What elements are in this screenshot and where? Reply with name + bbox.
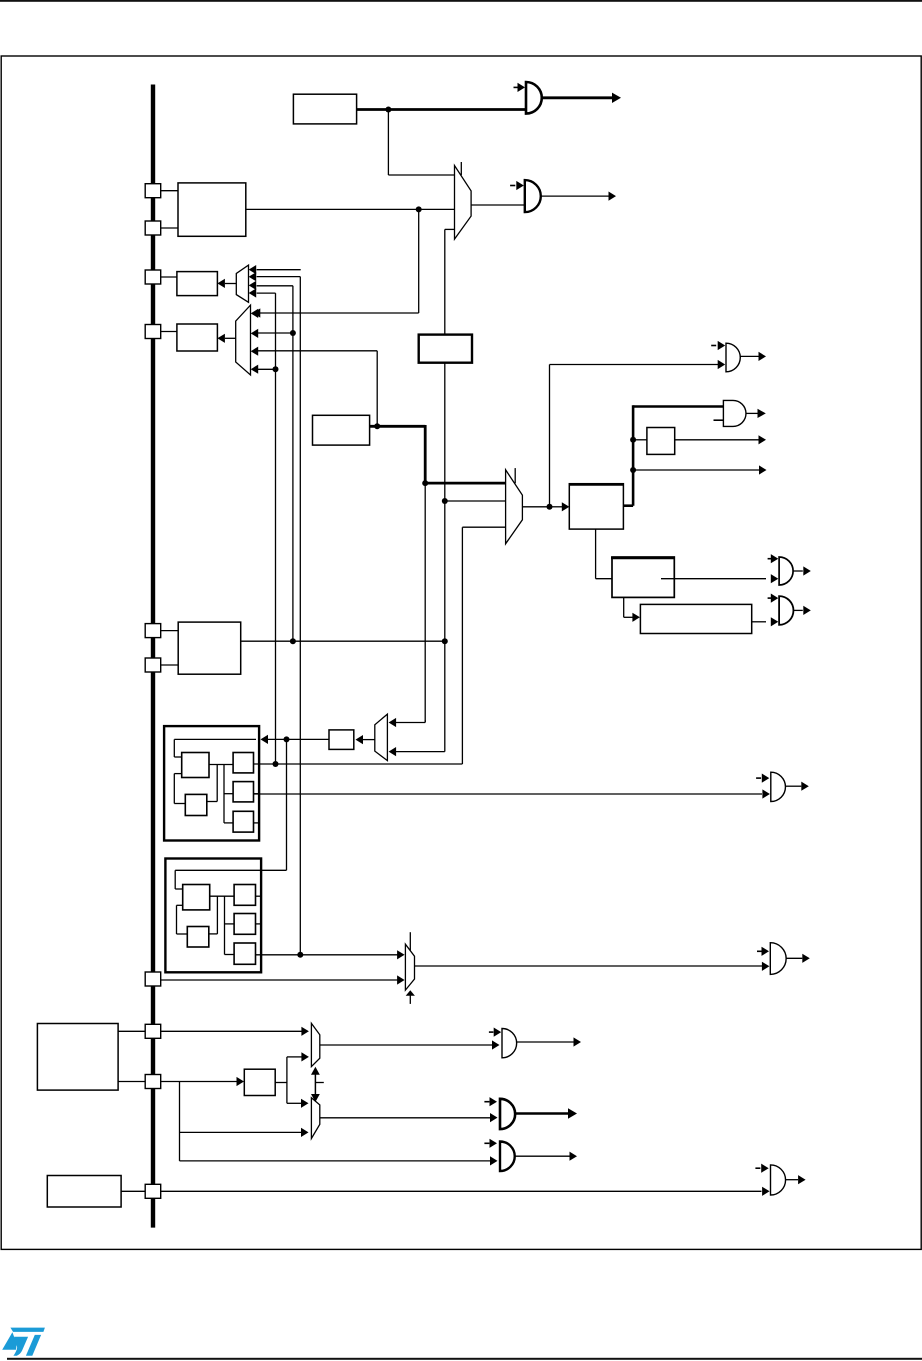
pin P10 <box>145 1184 161 1198</box>
B1 sub-box S1 <box>182 753 209 778</box>
junction dot net X292 at M3 input 2 <box>290 330 296 336</box>
register box R4 <box>177 324 218 351</box>
and gate G4 <box>723 400 746 426</box>
prescaler box R11 <box>329 730 354 750</box>
wire into counter R6 <box>550 506 563 508</box>
wire M4 output up to gate G3 <box>550 365 719 507</box>
mux M8 <box>311 1023 319 1066</box>
arrowhead mux M2 input 4 <box>249 288 257 297</box>
arrowhead into G11 input 2 <box>762 1187 770 1196</box>
B2 sub-box T3 <box>234 885 255 906</box>
junction dot R10 output at net X292 <box>290 638 296 644</box>
compare box R8 <box>611 557 674 597</box>
wire P10 to gate G11 <box>160 1190 761 1192</box>
junction dot B1 input line <box>284 736 290 742</box>
arrowhead mux M3 input 3 <box>251 347 259 356</box>
small box R13 <box>244 1069 275 1095</box>
event gate G9 <box>502 1029 517 1058</box>
mux M9 <box>311 1098 319 1139</box>
register box R1 <box>293 94 356 124</box>
wire junction to mux M1 top input <box>388 110 454 176</box>
wire B1 input line <box>174 738 256 740</box>
arrowhead into G9 input 2 <box>492 1040 500 1049</box>
B1 wire to S5 <box>224 822 233 824</box>
arrowhead mux M3 input 2 <box>251 329 259 338</box>
pin P5 <box>145 624 161 638</box>
arrowhead into R3 <box>217 279 225 288</box>
wire M4 output <box>522 506 549 508</box>
B1 wire S1 to S2 <box>174 774 185 804</box>
event gate G6 <box>779 596 793 625</box>
arrowhead into G5 <box>771 574 779 583</box>
page header rule <box>0 0 922 2</box>
arrowhead into B1 <box>261 735 269 744</box>
pin P6 <box>145 658 161 672</box>
event gate G8 <box>770 943 786 975</box>
pin P1 <box>145 184 161 198</box>
wire R13 net to M8 input 2 <box>287 1056 302 1058</box>
wire R13 net vertical <box>286 1057 288 1103</box>
arrowhead G2 output <box>609 192 617 201</box>
arrowhead mux M8 input 1 <box>301 1027 309 1036</box>
wire G5 output <box>793 570 803 572</box>
arrowhead G10 output <box>568 1108 577 1118</box>
wire P5 to R10 <box>160 630 178 632</box>
event gate G11 <box>771 1165 786 1195</box>
B1 wire right column vertical <box>223 765 225 823</box>
gate G1 enable arrow <box>514 83 526 92</box>
register box R14 <box>47 1176 121 1208</box>
capture block B2 outer box <box>165 859 261 973</box>
B1 wire S2 link <box>207 765 217 802</box>
B2 sub-box T1 <box>183 885 210 910</box>
pin P3 <box>145 270 161 284</box>
junction dot thick net lower tap <box>630 467 636 473</box>
mux M2 <box>236 265 248 302</box>
wire R10 output <box>241 640 445 642</box>
event gate G7 <box>771 772 786 801</box>
mux select link tick <box>315 1082 323 1084</box>
wire P7 to mux M7 <box>160 979 398 981</box>
wire R9 output to G6 <box>752 621 766 623</box>
wire R12 to P9 <box>118 1081 146 1083</box>
pin P4 <box>145 325 161 339</box>
wire G2 output <box>541 195 609 197</box>
event gate G10 <box>500 1099 515 1129</box>
junction dot R5 output to M3 net <box>374 423 380 429</box>
wire M9 output to G10 <box>320 1117 490 1119</box>
mux M7 select tick <box>409 932 411 950</box>
gate G5 enable arrow <box>768 554 779 563</box>
wire lower tap output <box>633 469 759 471</box>
arrowhead into R6 <box>562 502 570 511</box>
arrowhead G7 output <box>801 782 809 791</box>
B2 wire T2 link <box>209 896 218 934</box>
B2 sub-box T4 <box>234 914 255 935</box>
arrowhead mux M9 input 1 <box>301 1099 309 1108</box>
wire M2 input 3 from net X292 <box>257 286 293 641</box>
wire mux M2 output <box>225 283 236 285</box>
mux select link up arrow <box>311 1067 320 1096</box>
mux M1 <box>455 166 472 240</box>
wire M3 input 2 from net X292 <box>258 332 293 334</box>
arrowhead into G6 <box>771 617 779 626</box>
B1 wire entry to S1 <box>174 739 181 757</box>
gate G11b enable arrow <box>484 1139 497 1148</box>
arrowhead mux M8 input 2 <box>301 1052 309 1061</box>
B2 wire to T4 <box>225 923 235 925</box>
wire R2 output to mux M1 <box>246 208 455 210</box>
arrowhead mux M3 input 1 <box>251 309 259 318</box>
arrowhead mux M6 input 1 <box>389 718 397 727</box>
arrowhead G11 output <box>798 1175 806 1184</box>
arrowhead into G10 input 2 <box>490 1113 498 1122</box>
wire B1 output to capture mux net <box>254 763 463 765</box>
wire M4 input 2 <box>445 500 506 502</box>
wire M1 output to G2 <box>471 204 525 206</box>
arrowhead mux M2 input 3 <box>249 281 257 290</box>
junction dot on R1 output <box>385 107 391 113</box>
arrowhead into mux M3 input 1 <box>253 308 260 317</box>
pin P8 <box>145 1024 161 1038</box>
wire R6 bottom to R8 <box>596 529 612 579</box>
wire R14 to P10 <box>121 1190 146 1192</box>
pin P7 <box>145 972 161 986</box>
compare box R9 <box>640 604 751 633</box>
wire R11 to B1 <box>267 738 329 740</box>
wire R13 net to M9 input 1 <box>287 1102 302 1104</box>
wire R13 output <box>275 1082 287 1084</box>
wire R1 output (thick) <box>357 108 526 111</box>
B1 sub-box S3 <box>233 753 253 773</box>
wire net X179 branch down <box>179 1082 181 1161</box>
arrowhead G11b output <box>570 1152 578 1161</box>
B1 wire S4 stub <box>254 793 260 795</box>
wire net X179 to M9 input 2 <box>180 1131 302 1133</box>
gate G8 enable arrow <box>757 947 769 956</box>
junction dot thick net to R7 <box>630 437 636 443</box>
event gate G2 <box>525 180 541 212</box>
wire M2 input 4 from net X275 <box>257 293 276 764</box>
junction dot net X444 at M4 input 2 <box>442 498 448 504</box>
gate G2 enable arrow <box>510 181 524 190</box>
wire P3 to R3 <box>160 276 177 278</box>
wire G4 output <box>746 412 758 414</box>
wire M6 output to R11 <box>361 739 375 741</box>
mux M4 select tick <box>514 468 516 483</box>
register box R3 <box>177 272 218 296</box>
wire G10 output (thick) <box>515 1112 569 1115</box>
mux M7 bottom select arrow <box>406 990 415 1004</box>
wire G3 output <box>740 355 758 357</box>
mux M1 select tick <box>460 162 462 175</box>
capture block B1 outer box <box>164 726 259 840</box>
B1 sub-box S5 <box>233 811 253 832</box>
event gate G5 <box>779 557 793 585</box>
wire M8 output to G9 <box>320 1044 492 1046</box>
junction dot net X275 at M3 input 4 <box>273 366 279 372</box>
wire B1 output to G7 line <box>254 793 763 795</box>
arrowhead into R4 <box>217 334 225 343</box>
B2 wire T1 to T2 <box>177 905 188 934</box>
wire P4 to R4 <box>160 331 177 333</box>
register box R10 <box>178 622 241 674</box>
wire M7 output to G8 <box>415 965 763 967</box>
gate G10 enable arrow <box>484 1097 497 1106</box>
junction dot R10 output at net X444 <box>442 638 448 644</box>
B2 sub-box T2 <box>187 927 209 948</box>
junction dot on R2 output <box>416 206 422 212</box>
arrowhead G3 output <box>759 352 767 361</box>
register box R12 <box>37 1024 118 1091</box>
arrowhead G5 output <box>803 566 811 575</box>
arrowhead G1 output <box>612 93 621 103</box>
wire counter thick net to G4 <box>623 405 723 506</box>
wire P2 to R2 <box>161 227 178 229</box>
wire R8 output to G5 <box>661 578 766 580</box>
wire M2 input 2 from net X300 <box>257 277 301 955</box>
event gate G1 <box>526 82 542 114</box>
gate G3 enable arrow <box>711 341 725 350</box>
gate G4 inverted-input dash <box>714 419 724 421</box>
counter box R6 <box>569 484 623 529</box>
wire G6 output <box>793 609 802 611</box>
event gate G11b <box>500 1142 515 1172</box>
arrowhead mux M2 input 2 <box>249 272 257 281</box>
junction dot net X300 end <box>297 952 303 958</box>
arrowhead into R9 <box>632 613 640 622</box>
arrowhead into R11 <box>356 735 364 744</box>
register box R5 <box>313 415 370 445</box>
wire mux M1 bottom input stub <box>445 229 455 334</box>
arrowhead G8 output <box>802 954 810 963</box>
mux M7 <box>405 944 414 990</box>
wire G11b output <box>515 1155 570 1157</box>
B1 wire to S4 <box>224 793 233 795</box>
internal bus spine <box>151 85 155 1228</box>
arrowhead mux M2 input 1 <box>249 265 257 274</box>
arrowhead mux M6 input 2 <box>389 747 397 756</box>
wire R7 output <box>675 439 759 441</box>
B2 wire right column vertical <box>224 896 226 954</box>
wire net X286 down to B2 <box>261 739 286 870</box>
pin P9 <box>145 1075 161 1089</box>
B2 sub-box T5 <box>234 943 255 964</box>
B1 sub-box S2 <box>185 794 207 815</box>
B2 wire T3 stub <box>256 895 262 897</box>
arrowhead G6 output <box>803 606 811 615</box>
arrowhead into G7 input 2 <box>762 789 770 798</box>
wire G9 output <box>517 1041 574 1043</box>
wire G11 output <box>786 1179 798 1181</box>
arrowhead mux M9 input 2 <box>301 1128 309 1137</box>
wire net X425 down from corner <box>424 483 426 722</box>
mux M4 <box>506 470 523 544</box>
mux select link down arrow <box>311 1094 320 1102</box>
mux M3 <box>236 305 251 375</box>
register box R2 <box>178 183 246 236</box>
arrowhead mux M7 input 1 <box>397 950 405 959</box>
arrowhead into R13 <box>237 1077 245 1086</box>
gate G6 enable arrow <box>768 594 779 603</box>
wire R5 output thick path to mux M4 <box>370 425 506 483</box>
B2 wire to T5 <box>225 954 235 956</box>
wire M2 input 1 (open end) <box>257 269 301 271</box>
gate G9 enable arrow <box>489 1028 501 1037</box>
wire net X179 to gate G11b <box>180 1160 491 1162</box>
event gate G3 <box>726 343 740 372</box>
B2 wire T4 stub <box>256 923 262 925</box>
wire R8 bottom to R9 <box>624 597 633 617</box>
B1 wire S5 stub <box>254 822 260 824</box>
arrowhead mux M7 input 2 <box>397 975 405 984</box>
gate G7 enable arrow <box>756 774 769 783</box>
wire P9 to R13 <box>160 1081 238 1083</box>
wire M4 input 3 from capture net <box>462 527 505 764</box>
gate G11 enable arrow <box>755 1164 768 1173</box>
ST logo <box>2 1328 45 1356</box>
junction dot net X275 end <box>273 761 279 767</box>
wire M6 input 1 from net X425 <box>396 720 425 723</box>
wire G8 output <box>786 957 802 959</box>
junction dot M4 output <box>547 504 553 510</box>
wire R12 to P8 <box>118 1030 146 1032</box>
mux M6 <box>375 714 388 761</box>
arrowhead G4 output <box>758 409 766 418</box>
wire B2 output T5 to mux M7 <box>256 954 399 956</box>
arrowhead lower tap output <box>759 465 767 474</box>
arrowhead G9 output <box>574 1037 582 1046</box>
junction dot thick path corner <box>422 480 428 486</box>
wire junction down to mux M3 input 1 <box>258 209 419 313</box>
B1 wire S1 out to right column <box>209 764 233 766</box>
wire M6 input 2 from net X444 <box>396 751 445 753</box>
wire net X444 from R5b down <box>444 363 446 752</box>
wire P8 to mux M8 <box>160 1030 302 1032</box>
prescaler box R5b <box>419 335 472 363</box>
page footer rule <box>7 1358 922 1360</box>
small box R7 <box>647 428 675 455</box>
arrowhead R7 output <box>759 435 767 444</box>
B1 sub-box S4 <box>233 782 253 802</box>
wire P1 to R2 <box>160 190 178 192</box>
arrowhead mux M3 input 4 <box>251 365 259 374</box>
wire M3 input 4 from net X275 <box>258 368 276 370</box>
pin P2 <box>145 221 161 235</box>
B2 wire entry to T1 <box>175 870 261 889</box>
wire M3 input 3 from prescaler net <box>258 351 378 427</box>
arrowhead into G11b input 2 <box>490 1156 498 1165</box>
wire into R7 <box>633 439 647 441</box>
arrowhead into G3 input 2 <box>718 360 726 369</box>
wire G1 output (thick) <box>542 96 612 99</box>
arrowhead into G8 input 2 <box>762 962 770 971</box>
wire P6 to R10 <box>160 664 178 666</box>
B2 wire T1 out to right column <box>210 895 234 897</box>
wire G7 output <box>786 785 802 787</box>
wire mux M3 output <box>225 337 236 339</box>
